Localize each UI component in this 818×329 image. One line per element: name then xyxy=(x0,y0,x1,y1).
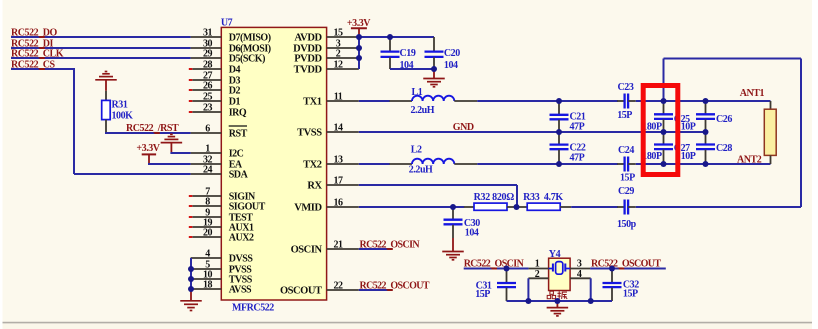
junction dot (528.4,301) xyxy=(525,298,531,304)
wire C19 C20 bottom xyxy=(390,68,434,70)
U7 pin 9 TEST xyxy=(192,216,221,218)
svg-text:1: 1 xyxy=(205,143,210,154)
svg-text:AUX2: AUX2 xyxy=(229,233,254,244)
resistor R32 xyxy=(464,206,474,208)
capacitor C21 xyxy=(558,101,560,114)
capacitor C30 xyxy=(452,207,454,219)
svg-text:SIGOUT: SIGOUT xyxy=(229,202,266,213)
junction dot (434,69) xyxy=(431,66,437,72)
U7 pin 20 AUX2 xyxy=(192,236,221,238)
svg-text:100K: 100K xyxy=(112,111,134,122)
wire EA net xyxy=(148,163,191,165)
svg-text:MFRC522: MFRC522 xyxy=(232,303,274,314)
svg-text:TX2: TX2 xyxy=(303,160,322,171)
svg-text:R32 820Ω: R32 820Ω xyxy=(474,192,515,203)
svg-text:C26: C26 xyxy=(716,114,732,125)
U7 pin 16 VMID xyxy=(327,206,359,208)
wire crystal OSCOUT net xyxy=(590,268,666,270)
svg-text:IRQ: IRQ xyxy=(229,108,247,119)
junction dot (663.5,101) xyxy=(661,98,667,104)
junction dot (559,101) xyxy=(556,98,562,104)
value label crystal chinese 晶振 drawn as strokes xyxy=(547,291,567,299)
U7 pin 1 I2C xyxy=(191,152,222,154)
wire crystal OSCIN net xyxy=(464,268,529,270)
U7 pin 22 OSCOUT xyxy=(327,289,359,291)
svg-text:RC522_/RST: RC522_/RST xyxy=(126,123,179,134)
svg-text:AVSS: AVSS xyxy=(229,285,252,296)
wire crystal bottom rail xyxy=(507,300,613,302)
svg-text:22: 22 xyxy=(333,280,343,291)
capacitor C20 xyxy=(433,37,435,51)
capacitor C26 xyxy=(705,101,707,114)
svg-text:D1: D1 xyxy=(229,97,241,108)
svg-text:47P: 47P xyxy=(570,122,585,133)
wire net RC522_CLK xyxy=(11,57,191,59)
inductor L1 xyxy=(389,100,412,102)
wire TX1 net xyxy=(359,100,390,102)
svg-text:RST: RST xyxy=(229,129,248,140)
junction dot (705.5,101) xyxy=(703,98,709,104)
U7 pin 24 SDA xyxy=(191,173,222,175)
svg-text:TX1: TX1 xyxy=(303,97,322,108)
capacitor C24 xyxy=(617,163,624,165)
svg-text:15P: 15P xyxy=(617,110,632,121)
U7 pin 27 D3 xyxy=(192,79,221,81)
svg-text:R31: R31 xyxy=(112,100,128,111)
ground below C30 xyxy=(452,238,454,252)
junction dot (359,48) xyxy=(356,45,362,51)
svg-text:8: 8 xyxy=(205,196,210,207)
svg-text:18: 18 xyxy=(203,279,213,290)
U7 pin 3 DVDD xyxy=(327,47,359,49)
svg-text:31: 31 xyxy=(203,27,213,38)
red highlight box xyxy=(643,86,678,175)
resistor R33 xyxy=(516,206,527,208)
U7 pin 17 RX xyxy=(327,184,359,186)
svg-text:D7(MISO): D7(MISO) xyxy=(229,33,271,44)
svg-text:20: 20 xyxy=(203,227,213,238)
U7 pin 5 PVSS xyxy=(191,268,222,270)
wire SDA net xyxy=(74,173,191,175)
junction dot (559,164) xyxy=(556,161,562,167)
capacitor C28 xyxy=(705,132,707,144)
wire C29 to right loop xyxy=(636,206,801,208)
svg-text:I2C: I2C xyxy=(229,149,244,160)
svg-text:R33 4.7K: R33 4.7K xyxy=(523,192,563,203)
svg-text:ANT2: ANT2 xyxy=(737,154,762,165)
wire C23 to antenna ANT1 xyxy=(636,100,771,102)
U7 pin 29 D5(SCK) xyxy=(191,57,222,59)
U7 pin 23 IRQ xyxy=(192,111,221,113)
crystal pin 1 xyxy=(529,268,549,270)
svg-text:15P: 15P xyxy=(620,173,635,184)
junction dot (359,37) xyxy=(356,34,362,40)
svg-text:TVDD: TVDD xyxy=(294,65,323,76)
junction dot (705.5,132) xyxy=(703,129,709,135)
capacitor C23 xyxy=(617,100,624,102)
svg-text:L2: L2 xyxy=(411,144,422,155)
junction dot (191,269) xyxy=(188,266,194,272)
svg-text:D4: D4 xyxy=(229,65,241,76)
U7 pin 32 EA xyxy=(191,163,222,165)
crystal pin 3 xyxy=(570,268,590,270)
junction dot (359,58) xyxy=(356,55,362,61)
U7 pin 30 D6(MOSI) xyxy=(191,47,222,49)
svg-text:RC522_OSCOUT: RC522_OSCOUT xyxy=(360,281,430,292)
U7 pin 14 TVSS xyxy=(327,131,359,133)
capacitor C29 xyxy=(617,206,624,208)
wire net RC522_OSCOUT at pin 22 xyxy=(359,289,390,291)
svg-text:21: 21 xyxy=(333,239,343,250)
U7 pin 15 AVDD xyxy=(327,36,359,38)
svg-text:104: 104 xyxy=(465,227,479,238)
U7 pin 2 PVDD xyxy=(327,57,359,59)
ground above R31 (flipped) xyxy=(95,79,117,81)
svg-text:26: 26 xyxy=(203,80,213,91)
junction dot (557.4,301) xyxy=(554,298,560,304)
svg-text:RC522_CLK: RC522_CLK xyxy=(11,48,64,59)
wire TVSS GND net xyxy=(359,131,706,133)
svg-text:150p: 150p xyxy=(617,219,637,230)
junction dot (612,268.5) xyxy=(609,266,615,272)
junction dot (191,279) xyxy=(188,276,194,282)
svg-text:24: 24 xyxy=(203,164,213,175)
svg-text:RC522_CS: RC522_CS xyxy=(11,59,56,70)
svg-text:29: 29 xyxy=(203,48,213,59)
svg-text:OSCOUT: OSCOUT xyxy=(280,286,322,297)
U7 pin 4 DVSS xyxy=(191,257,222,259)
svg-text:+3.3V: +3.3V xyxy=(136,143,160,154)
svg-text:D5(SCK): D5(SCK) xyxy=(229,54,265,65)
svg-text:C29: C29 xyxy=(618,186,634,197)
svg-text:2.2uH: 2.2uH xyxy=(409,165,433,176)
U7 pin 25 D1 xyxy=(192,100,221,102)
svg-text:104: 104 xyxy=(444,60,458,71)
capacitor C19 xyxy=(389,37,391,51)
wire net RC522_CS xyxy=(11,68,75,70)
svg-text:14: 14 xyxy=(333,122,343,133)
svg-text:17: 17 xyxy=(333,175,343,186)
U7 pin 12 TVDD xyxy=(327,68,359,70)
wire VMID net xyxy=(359,206,465,208)
wire net RC522_DI xyxy=(11,47,191,49)
svg-text:15P: 15P xyxy=(623,289,638,300)
svg-text:23: 23 xyxy=(203,102,213,113)
svg-text:GND: GND xyxy=(453,122,474,133)
svg-text:2: 2 xyxy=(336,48,341,59)
junction dot (663.5,164) xyxy=(661,161,667,167)
U7 pin 31 D7(MISO) xyxy=(191,36,222,38)
svg-text:11: 11 xyxy=(334,91,343,102)
svg-text:L1: L1 xyxy=(412,87,423,98)
wire DVSS-PVSS-TVSS-AVSS ground rail xyxy=(190,258,192,289)
svg-text:D2: D2 xyxy=(229,86,241,97)
svg-text:C28: C28 xyxy=(716,143,732,154)
resistor R31 xyxy=(105,91,107,101)
capacitor C31 xyxy=(506,269,508,283)
svg-text:RC522_OSCOUT: RC522_OSCOUT xyxy=(591,258,661,269)
U7 pin 28 D4 xyxy=(192,68,221,70)
junction dot (390,37) xyxy=(387,34,393,40)
svg-text:SDA: SDA xyxy=(229,170,249,181)
U7 pin 19 AUX1 xyxy=(192,226,221,228)
svg-text:AVDD: AVDD xyxy=(294,33,322,44)
svg-text:C23: C23 xyxy=(618,82,634,93)
wire TX1 loop up and right xyxy=(663,59,665,102)
U7 pin 7 SIGIN xyxy=(192,195,221,197)
U7 pin 11 TX1 xyxy=(327,100,359,102)
svg-text:PVDD: PVDD xyxy=(294,54,322,65)
svg-text:RX: RX xyxy=(307,181,322,192)
svg-text:15P: 15P xyxy=(475,289,490,300)
junction dot (590.7,301) xyxy=(588,298,594,304)
capacitor C32 xyxy=(611,269,613,283)
wire C24 to antenna ANT2 xyxy=(636,163,771,165)
svg-text:25: 25 xyxy=(203,91,213,102)
wire net RC522_DO xyxy=(11,36,191,38)
svg-text:OSCIN: OSCIN xyxy=(291,245,323,256)
junction dot (516.5,207) xyxy=(514,204,520,210)
wire net RC522_/RST xyxy=(105,132,191,134)
svg-text:47P: 47P xyxy=(570,153,585,164)
svg-text:10P: 10P xyxy=(681,121,696,132)
svg-text:VMID: VMID xyxy=(294,203,322,214)
wire I2C to ground xyxy=(170,152,190,154)
U7 pin 13 TX2 xyxy=(327,163,359,165)
window bottom edge xyxy=(0,322,812,324)
svg-text:2: 2 xyxy=(535,269,540,280)
svg-text:28: 28 xyxy=(203,59,213,70)
svg-text:15: 15 xyxy=(333,27,343,38)
wire RC522_CS vertical to SDA xyxy=(73,69,75,174)
antenna ANT component xyxy=(770,101,772,109)
svg-text:C20: C20 xyxy=(444,48,460,59)
svg-text:12: 12 xyxy=(333,59,343,70)
U7 pin 10 TVSS xyxy=(191,278,222,280)
svg-text:DVSS: DVSS xyxy=(229,254,254,265)
wire RX net xyxy=(359,184,517,186)
crystal pin 4 xyxy=(570,277,591,279)
svg-text:16: 16 xyxy=(333,197,343,208)
IC U7 MFRC522 body xyxy=(221,27,326,300)
inductor L2 xyxy=(389,163,412,165)
wire power bus vertical 15-3-2-12 xyxy=(358,37,360,69)
svg-text:RC522_DO: RC522_DO xyxy=(11,27,58,38)
wire power to C19 C20 top xyxy=(359,36,434,38)
junction dot (453,207) xyxy=(450,204,456,210)
svg-text:4: 4 xyxy=(205,248,210,259)
wire L2 to C24 xyxy=(477,163,618,165)
window left margin xyxy=(0,0,3,329)
ground below C20 xyxy=(433,69,435,79)
junction dot (559,132) xyxy=(556,129,562,135)
svg-text:6: 6 xyxy=(205,123,210,134)
svg-text:U7: U7 xyxy=(221,17,233,28)
capacitor C27 xyxy=(663,132,665,144)
U7 pin 6 RST xyxy=(191,132,222,134)
svg-text:TVSS: TVSS xyxy=(297,128,322,139)
ground at AVSS rail xyxy=(190,289,192,300)
junction dot (705.5,164) xyxy=(703,161,709,167)
junction dot (506.5,268.5) xyxy=(504,266,510,272)
svg-text:C19: C19 xyxy=(400,48,416,59)
U7 pin 18 AVSS xyxy=(191,288,222,290)
junction dot (191,289) xyxy=(188,286,194,292)
svg-text:13: 13 xyxy=(333,154,343,165)
U7 pin 21 OSCIN xyxy=(327,248,359,250)
svg-text:10P: 10P xyxy=(681,151,696,162)
wire L1 to C23 xyxy=(477,100,618,102)
U7 pin 26 D2 xyxy=(192,89,221,91)
window right margin xyxy=(812,0,818,329)
junction dot (663.5,132) xyxy=(661,129,667,135)
wire R33 to C29 xyxy=(571,206,618,208)
wire net RC522_OSCIN at pin 21 xyxy=(359,248,390,250)
U7 pin 8 SIGOUT xyxy=(192,205,221,207)
svg-text:2.2uH: 2.2uH xyxy=(411,105,435,116)
wire TX2 net xyxy=(359,163,390,165)
capacitor C22 xyxy=(558,132,560,144)
svg-text:4: 4 xyxy=(577,269,582,280)
ground at I2C pin (flipped) xyxy=(161,142,183,144)
svg-text:ANT1: ANT1 xyxy=(740,88,765,99)
svg-text:C24: C24 xyxy=(618,145,634,156)
capacitor C25 xyxy=(663,101,665,114)
ground below crystal xyxy=(556,301,558,308)
crystal pin 2 xyxy=(528,277,548,279)
